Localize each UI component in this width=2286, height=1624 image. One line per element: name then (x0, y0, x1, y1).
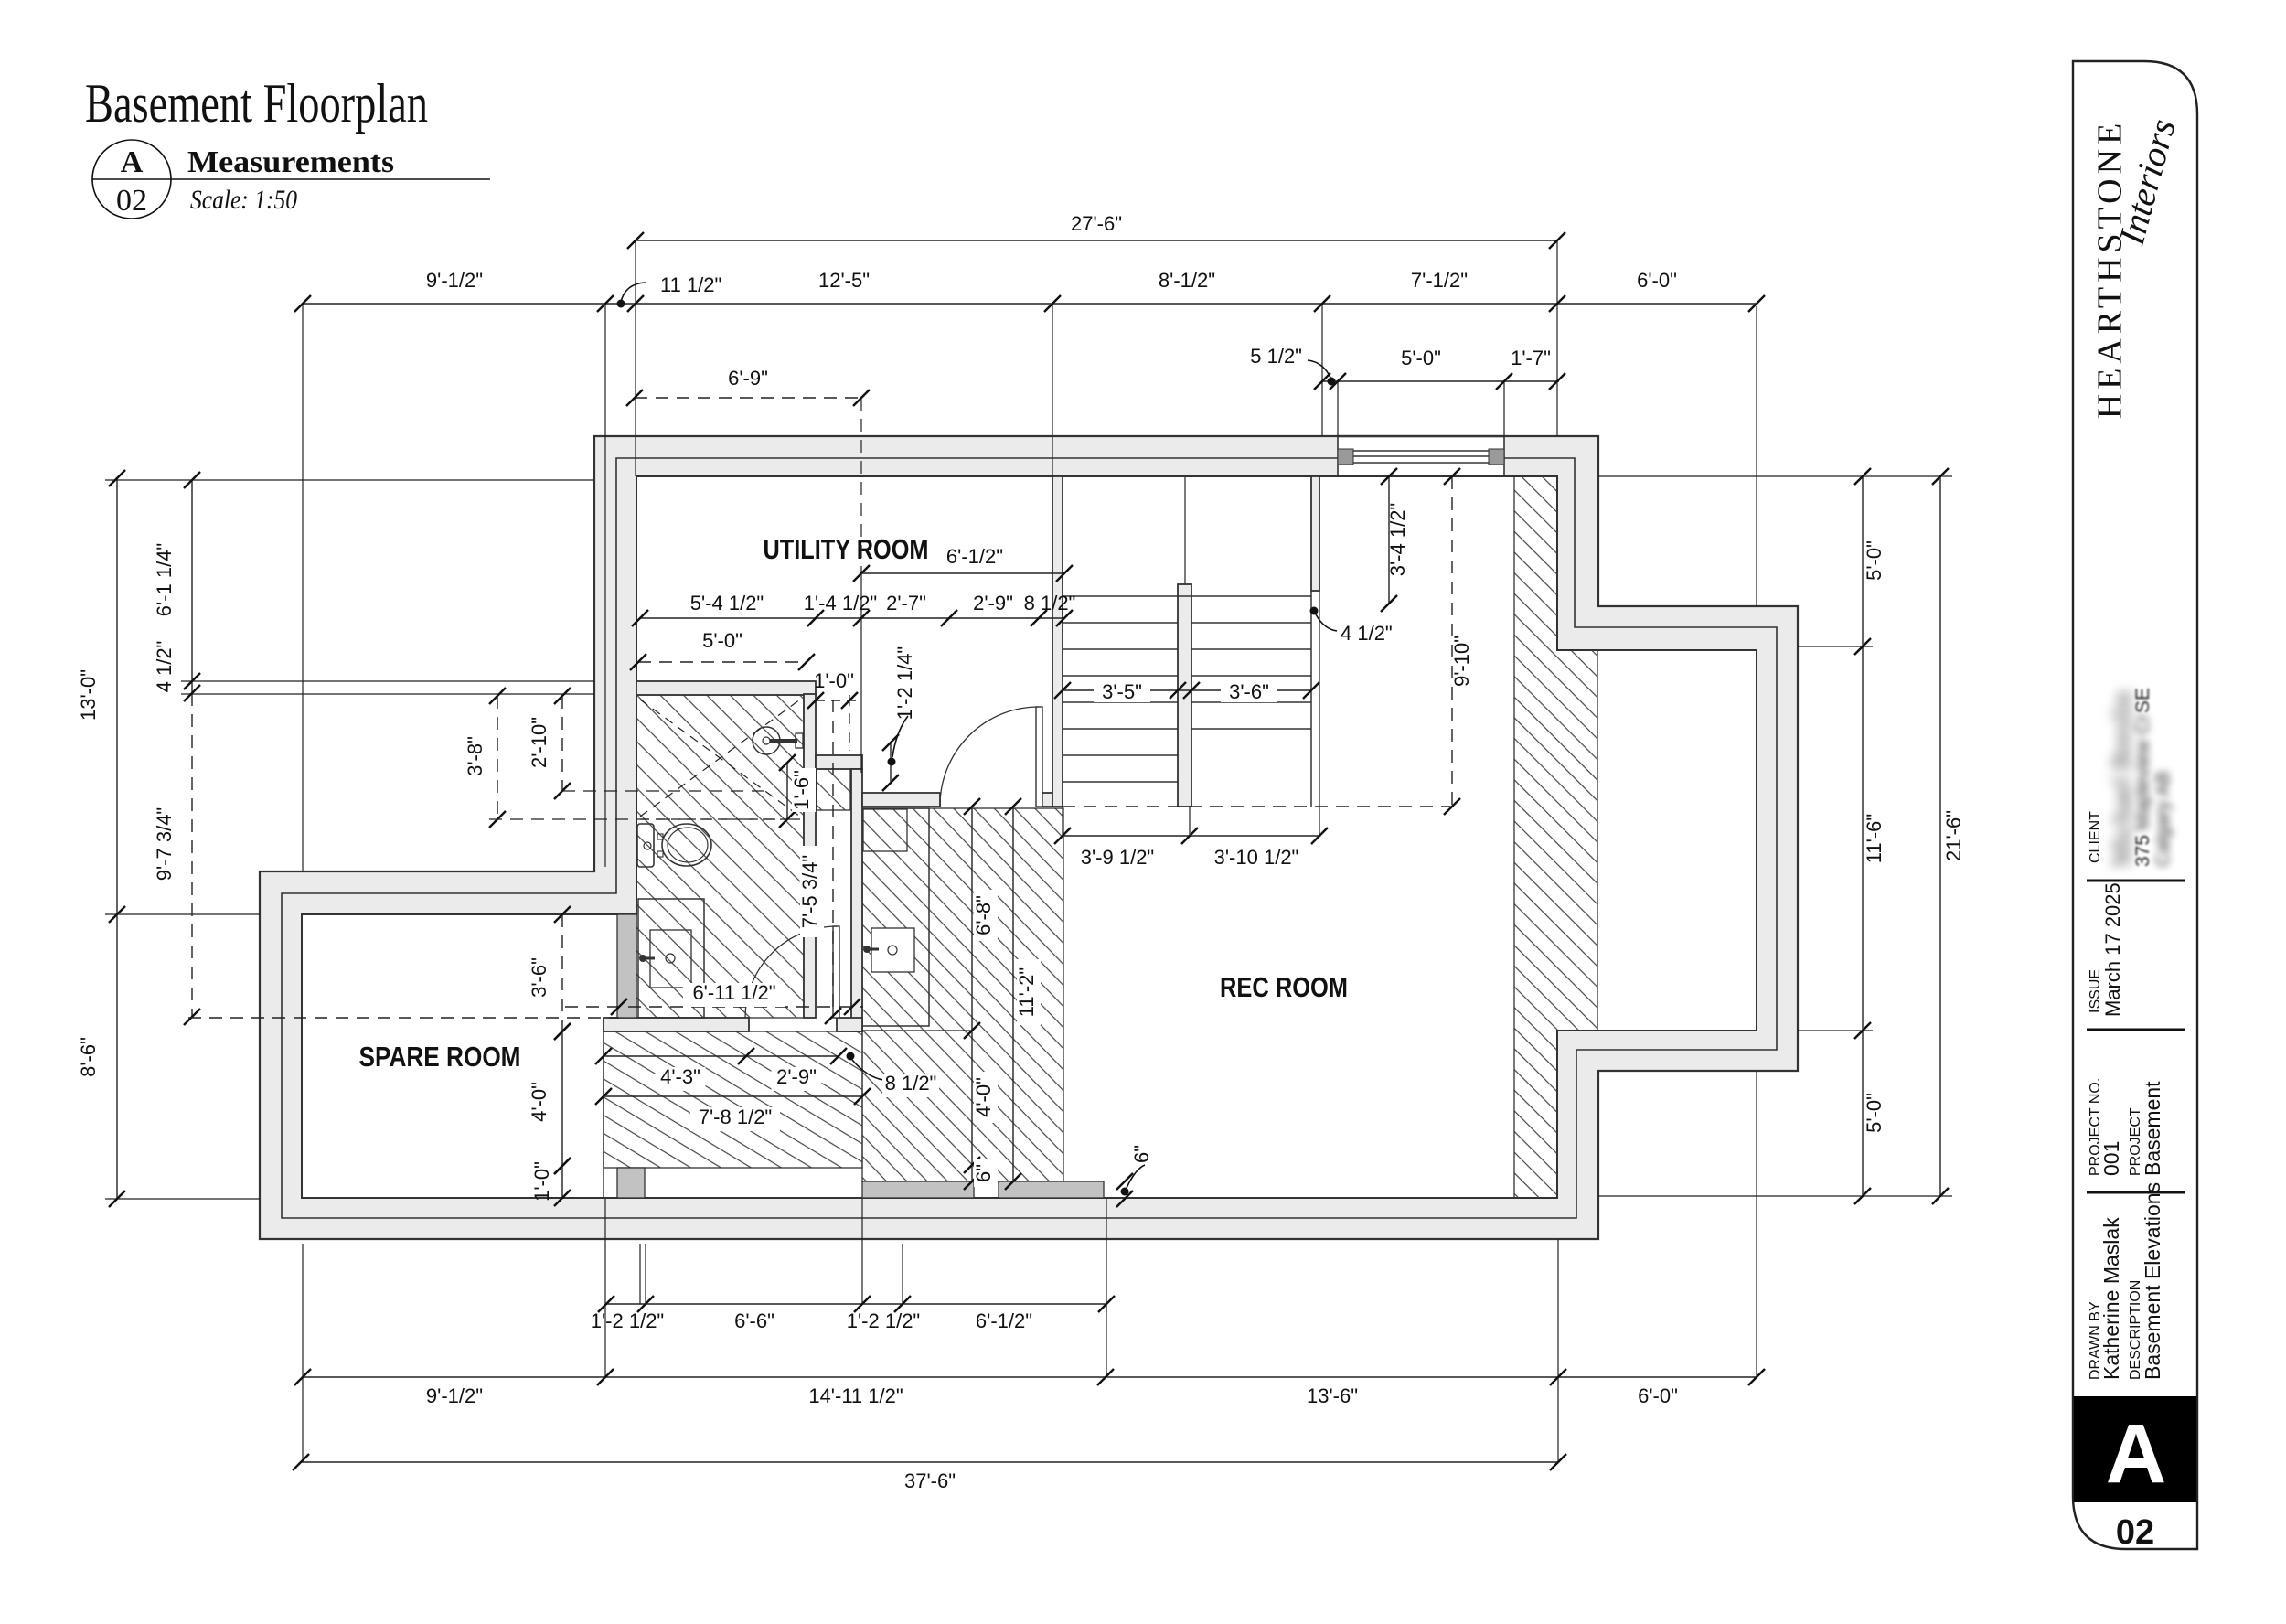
dimension 3'-6" (528, 906, 571, 1040)
extension lines right (1598, 476, 1952, 1196)
svg-text:1'-2 1/2": 1'-2 1/2" (591, 1309, 665, 1332)
svg-text:13'-6": 13'-6" (1307, 1384, 1358, 1407)
drawn by section (2088, 1182, 2164, 1380)
dimension 13'-0" (77, 470, 125, 923)
svg-text:Basement Elevations: Basement Elevations (2141, 1182, 2164, 1380)
svg-text:3'-5": 3'-5" (1102, 680, 1142, 703)
svg-text:8'-1/2": 8'-1/2" (1159, 269, 1215, 292)
svg-text:7'-8 1/2": 7'-8 1/2" (699, 1106, 773, 1128)
extension lines left (105, 480, 594, 1199)
toilet (637, 824, 711, 867)
drawing title Measurements (187, 145, 394, 215)
leader 5 1/2 inch (1250, 345, 1335, 386)
leader 8 1/2 lower (847, 1052, 940, 1098)
vanity 1 (638, 899, 704, 1018)
project no section (2088, 1078, 2164, 1176)
svg-text:1'-7": 1'-7" (1511, 347, 1551, 369)
svg-text:Katherine Maslak: Katherine Maslak (2099, 1217, 2123, 1380)
exterior wall band fill (260, 436, 1798, 1239)
svg-text:5 1/2": 5 1/2" (1250, 345, 1302, 368)
svg-text:6'-6": 6'-6" (734, 1309, 774, 1332)
stairwell west wall (1052, 476, 1063, 807)
svg-text:6'-11 1/2": 6'-11 1/2" (692, 981, 775, 1004)
svg-text:2'-7": 2'-7" (886, 592, 926, 614)
stairwell east wall (1311, 476, 1319, 591)
svg-text:UTILITY ROOM: UTILITY ROOM (764, 533, 929, 565)
dashed ref line 2-10 (562, 790, 764, 792)
room label REC ROOM (1220, 971, 1348, 1003)
svg-text:Basement Floorplan: Basement Floorplan (85, 73, 428, 134)
sheet number 02 (2116, 1513, 2154, 1552)
dimension 5'-0" shower (630, 629, 815, 670)
stairs (1063, 591, 1311, 807)
dimension 1-0 nook (807, 669, 862, 709)
svg-text:3'-4 1/2": 3'-4 1/2" (1386, 503, 1409, 577)
svg-text:CLIENT: CLIENT (2088, 811, 2103, 863)
hatched bathroom floor (636, 695, 804, 1018)
dimension bottom row 1 (591, 1296, 1115, 1332)
logo HEARTHSTONE (2091, 119, 2130, 420)
extension lines bottom (303, 1071, 1757, 1462)
dimension row 4-3 / 2-9 (595, 1048, 847, 1091)
room label UTILITY ROOM (764, 533, 929, 565)
dashed line nook vertical (849, 695, 850, 751)
svg-text:11'-6": 11'-6" (1863, 814, 1885, 863)
leader 6 inch right (1116, 1145, 1153, 1207)
window well bar left (862, 1181, 974, 1198)
svg-text:2'-9": 2'-9" (776, 1065, 817, 1088)
window well bar right (999, 1181, 1104, 1198)
svg-text:1'-2 1/2": 1'-2 1/2" (847, 1309, 921, 1332)
svg-text:3'-10 1/2": 3'-10 1/2" (1214, 846, 1299, 869)
dimension 6-1 1/4 chain (153, 472, 200, 1025)
exterior wall middle line (282, 458, 1777, 1218)
svg-text:6": 6" (972, 1164, 995, 1182)
room label SPARE ROOM (359, 1041, 521, 1073)
dimension 6'-9" (626, 367, 870, 406)
svg-text:1'-2 1/4": 1'-2 1/4" (893, 646, 916, 721)
sheet title (85, 73, 428, 134)
svg-text:21'-6": 21'-6" (1942, 810, 1965, 861)
hall south wall (862, 793, 940, 807)
bathroom north wall (636, 681, 816, 695)
svg-text:7'-1/2": 7'-1/2" (1411, 269, 1468, 292)
svg-text:375: 375 (2132, 835, 2153, 867)
dimension 1'-0" left (530, 1158, 571, 1206)
exterior wall outer line (260, 436, 1798, 1239)
svg-text:A: A (2106, 1407, 2166, 1501)
window in top wall (1338, 436, 1504, 476)
svg-text:6'-0": 6'-0" (1637, 269, 1677, 292)
bathroom south wall right piece (837, 1018, 862, 1031)
dimension 11'-2" (1005, 798, 1021, 1190)
svg-text:March 17 2025: March 17 2025 (2101, 882, 2124, 1017)
svg-text:37'-6": 37'-6" (904, 1469, 956, 1492)
foundation block bottom-left (617, 1168, 645, 1198)
nook south wall (816, 755, 862, 769)
svg-text:3'-9 1/2": 3'-9 1/2" (1081, 846, 1155, 869)
svg-text:8'-6": 8'-6" (77, 1037, 100, 1077)
dimension 1-2 1/4 (882, 646, 916, 791)
shower head symbol (753, 727, 803, 754)
hatched area laundry/bath2 floor (862, 808, 1063, 1182)
dashed line stair bottom (1063, 806, 1452, 807)
dimension 3-9 1/2 / 3-10 1/2 (1054, 591, 1328, 869)
svg-text:Mapleview Cr: Mapleview Cr (2132, 714, 2153, 830)
svg-text:9'-1/2": 9'-1/2" (426, 269, 483, 292)
svg-text:Calgary AB: Calgary AB (2152, 771, 2174, 867)
dimension row bath top chain (632, 592, 1075, 626)
dimension 7-8half (595, 1088, 871, 1105)
door hall to laundry (940, 707, 1042, 807)
svg-text:9'-1/2": 9'-1/2" (426, 1384, 483, 1407)
svg-text:4'-3": 4'-3" (660, 1065, 700, 1088)
dimension 2'-10" (528, 688, 571, 799)
svg-text:6'-8": 6'-8" (972, 895, 995, 935)
svg-text:14'-11 1/2": 14'-11 1/2" (808, 1384, 903, 1407)
rail guide line above stairs (1184, 476, 1186, 584)
svg-text:6": 6" (1130, 1145, 1153, 1163)
dimension 9'-10" (1444, 468, 1460, 815)
title block sidebar frame (2073, 61, 2197, 1549)
svg-text:9'-7 3/4": 9'-7 3/4" (153, 807, 176, 881)
svg-text:6'-0": 6'-0" (1638, 1384, 1678, 1407)
svg-text:1'-6": 1'-6" (790, 770, 813, 810)
svg-text:Basement: Basement (2141, 1081, 2164, 1176)
svg-text:5'-0": 5'-0" (702, 629, 742, 652)
dimension 1'-6" (779, 754, 796, 828)
dimension right chain 5-0/11-6/5-0 (1854, 468, 1885, 1204)
svg-text:9'-10": 9'-10" (1450, 636, 1473, 687)
svg-text:Measurements: Measurements (187, 145, 394, 179)
leader 4 1/2 stairs (1310, 607, 1393, 646)
logo Interiors script (2110, 114, 2184, 250)
svg-text:A: A (121, 145, 144, 179)
svg-text:7'-5 3/4": 7'-5 3/4" (798, 855, 821, 929)
reference line 4-0 top (862, 1030, 972, 1031)
bathroom south wall left piece (604, 1018, 749, 1031)
hall door hinge stub (1040, 793, 1052, 807)
dimension 7'-5 3/4" (832, 700, 834, 1016)
svg-text:5'-0": 5'-0" (1401, 347, 1441, 369)
dimension bottom row 2 (294, 1369, 1765, 1407)
svg-text:11'-2": 11'-2" (1015, 967, 1038, 1017)
dimension 8'-6" (77, 914, 117, 1199)
dimension 3-5 / 3-6 stairs (1054, 677, 1319, 703)
svg-text:11 1/2": 11 1/2" (660, 273, 721, 296)
dimension 4'-0" left (528, 1023, 571, 1174)
hatched block below nook (817, 769, 850, 810)
divider 3 (2087, 1191, 2185, 1194)
dimension row top chain (294, 269, 1765, 312)
bath2 west wall (851, 769, 862, 1031)
svg-text:SE: SE (2132, 688, 2153, 713)
bathroom east wall (804, 694, 816, 1018)
exterior wall inner line (302, 476, 1757, 1198)
dimension 27'-6" (627, 212, 1565, 249)
svg-text:5'-4 1/2": 5'-4 1/2" (690, 592, 764, 614)
svg-text:6'-1 1/4": 6'-1 1/4" (153, 543, 176, 617)
vanity 2 counter (862, 808, 929, 1026)
sheet letter block (2074, 1396, 2196, 1502)
divider 2 (2087, 1029, 2185, 1031)
dimension 3'-4 1/2" (1381, 468, 1397, 612)
shower dashed outline (640, 700, 800, 819)
svg-text:4'-0": 4'-0" (972, 1077, 995, 1117)
dashed ref line 3-8 (489, 818, 802, 820)
svg-text:6'-1/2": 6'-1/2" (946, 545, 1003, 568)
svg-text:REC ROOM: REC ROOM (1220, 971, 1348, 1003)
svg-text:4 1/2": 4 1/2" (1341, 622, 1393, 645)
svg-text:27'-6": 27'-6" (1071, 212, 1122, 235)
svg-text:13'-0": 13'-0" (77, 669, 100, 721)
svg-text:4'-0": 4'-0" (528, 1082, 550, 1122)
svg-text:6'-1/2": 6'-1/2" (976, 1309, 1032, 1332)
dimension 6-11 1/2 (565, 981, 863, 1015)
svg-text:001: 001 (2099, 1141, 2123, 1176)
dimension row window (1314, 347, 1565, 390)
svg-text:3'-8": 3'-8" (464, 736, 486, 776)
stair center rail (1178, 584, 1191, 807)
leader 11 1/2 inch (617, 273, 722, 308)
dimension 6'-1/2" (853, 545, 1073, 582)
svg-text:HEARTHSTONE: HEARTHSTONE (2091, 119, 2130, 420)
new wall strip west of bathroom (617, 914, 636, 1018)
dimension 37-6 (293, 1454, 1566, 1492)
dimension 21'-6" (1932, 468, 1949, 1204)
client redacted name (2107, 691, 2137, 867)
svg-text:1'-0": 1'-0" (530, 1161, 553, 1202)
svg-text:1'-4 1/2": 1'-4 1/2" (804, 592, 878, 614)
svg-text:8 1/2": 8 1/2" (885, 1072, 937, 1095)
divider 1 (2087, 880, 2185, 882)
door bathroom (south wall) (745, 926, 839, 1018)
client redacted address (2132, 688, 2153, 867)
svg-text:5'-0": 5'-0" (1863, 540, 1885, 581)
dimension 3'-8" (464, 688, 506, 828)
issue section (2088, 882, 2124, 1017)
svg-text:6'-9": 6'-9" (728, 367, 768, 390)
dashed extension 6-9 right (860, 398, 862, 773)
hatched area bottom-left strip (604, 1031, 862, 1168)
svg-text:2'-10": 2'-10" (528, 717, 550, 768)
svg-text:2'-9": 2'-9" (973, 592, 1013, 614)
client section (2088, 811, 2103, 863)
spare room east boundary line (603, 1018, 604, 1198)
svg-text:1'-0": 1'-0" (814, 669, 854, 692)
client redacted city (2152, 771, 2174, 867)
svg-text:3'-6": 3'-6" (1229, 680, 1269, 703)
svg-text:12'-5": 12'-5" (818, 269, 870, 292)
hatched wall strip right (unexcavated) (1514, 476, 1597, 1198)
dashed line lower left (188, 1017, 619, 1019)
extension lines top (303, 240, 1757, 871)
drawing id circle A/02 (92, 140, 490, 219)
svg-text:02: 02 (116, 184, 147, 218)
svg-text:3'-6": 3'-6" (528, 957, 550, 998)
svg-text:02: 02 (2116, 1513, 2154, 1552)
svg-text:4 1/2": 4 1/2" (153, 641, 176, 693)
svg-text:SPARE ROOM: SPARE ROOM (359, 1041, 521, 1073)
svg-text:5'-0": 5'-0" (1863, 1093, 1885, 1133)
vertical dims 6-8 / 4-0 / 6 (964, 798, 998, 1190)
svg-text:8 1/2": 8 1/2" (1024, 592, 1076, 614)
svg-text:Scale: 1:50: Scale: 1:50 (190, 185, 297, 215)
